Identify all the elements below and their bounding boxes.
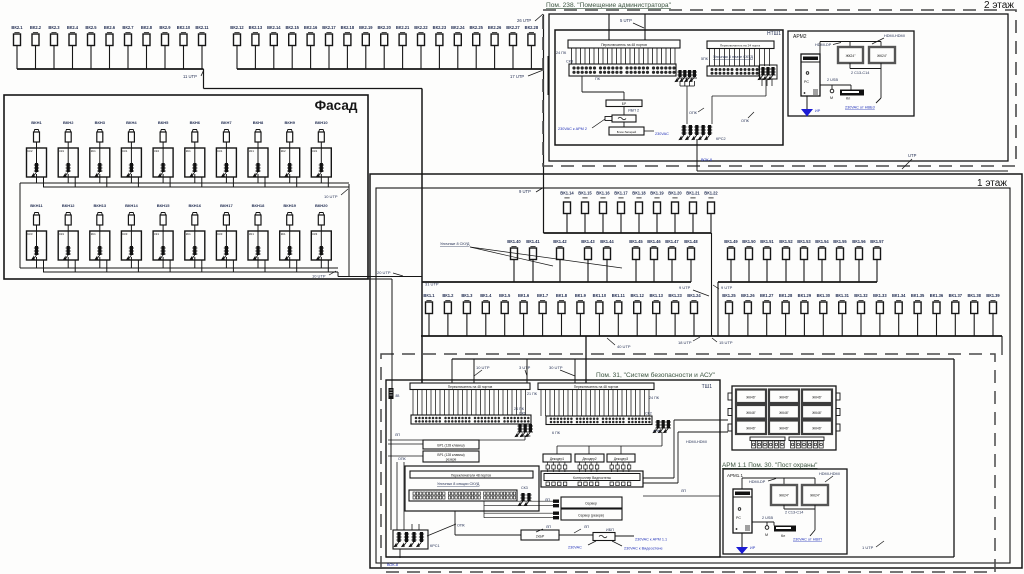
svg-text:2хБР: 2хБР <box>536 535 545 539</box>
svg-text:КК2: КК2 <box>154 149 159 153</box>
facade camera ВКН16 <box>188 203 201 231</box>
facade camera ВКН14 <box>125 203 138 231</box>
svg-text:ВК2.22: ВК2.22 <box>414 25 428 30</box>
svg-text:9 UTP: 9 UTP <box>721 285 733 290</box>
svg-text:ВК2.26: ВК2.26 <box>488 25 502 30</box>
svg-text:Переключатель на 24 порта: Переключатель на 24 порта <box>720 44 760 48</box>
svg-text:ВКН18: ВКН18 <box>252 203 265 208</box>
camera ВК1.36 <box>930 293 944 336</box>
camera ВК1.23 <box>668 293 682 336</box>
panel2 ports TSh1 <box>541 390 649 417</box>
junction box КК2 <box>153 148 173 177</box>
facade camera ВКН11 <box>30 203 43 231</box>
svg-text:ОПК: ОПК <box>457 524 466 528</box>
wire facade bus left riser <box>19 183 21 268</box>
svg-text:ВК2.8: ВК2.8 <box>141 25 153 30</box>
wire facade 20 UTP feeder <box>338 276 422 278</box>
svg-text:ВК1.16: ВК1.16 <box>596 191 610 196</box>
camera ВК1.25 <box>722 293 736 336</box>
camera ВК2.8 <box>141 25 153 69</box>
svg-text:230VAC к Видеостене: 230VAC к Видеостене <box>624 547 663 551</box>
svg-text:ВК2.7: ВК2.7 <box>122 25 134 30</box>
svg-text:ВКН13: ВКН13 <box>93 203 106 208</box>
wire monitors power ARM11 <box>784 505 815 536</box>
svg-text:Уличная 8 плате СКУД: Уличная 8 плате СКУД <box>713 55 753 59</box>
svg-text:ВК1.14: ВК1.14 <box>560 191 574 196</box>
camera ВК1.11 <box>612 293 626 336</box>
svg-text:ЛП: ЛП <box>546 525 551 529</box>
junction box КК1 <box>121 148 141 177</box>
camera ВК2.26 <box>488 25 502 69</box>
svg-text:ВК1.51: ВК1.51 <box>760 239 774 244</box>
facade camera ВКН3 <box>95 120 106 148</box>
camera ВК1.48 <box>684 239 698 282</box>
svg-text:КК1: КК1 <box>312 149 317 153</box>
svg-text:ВКН10: ВКН10 <box>315 120 328 125</box>
svg-text:ВК1.7: ВК1.7 <box>537 293 549 298</box>
facade camera ВКН4 <box>126 120 137 148</box>
svg-text:24 ПК: 24 ПК <box>514 407 525 411</box>
svg-text:1 этаж: 1 этаж <box>977 178 1007 189</box>
monitor ЖК24 no.1 ARM2 <box>838 47 863 63</box>
svg-text:ВК1.2: ВК1.2 <box>442 293 454 298</box>
svg-text:ВК2.3: ВК2.3 <box>48 25 60 30</box>
svg-text:ТШ1: ТШ1 <box>702 384 713 390</box>
camera ВК2.28 <box>525 25 539 69</box>
label 10 UTP row2 <box>312 271 336 279</box>
fiber cross KPC2 <box>679 125 725 141</box>
svg-text:КК2: КК2 <box>281 149 286 153</box>
svg-text:ВК2.6: ВК2.6 <box>104 25 116 30</box>
label ЛП left <box>388 433 423 444</box>
floor1 inner solid box <box>376 188 1010 563</box>
svg-text:ЖК24": ЖК24" <box>846 54 857 58</box>
svg-text:ВК1.21: ВК1.21 <box>686 191 700 196</box>
wire 5 UTP risers into panel <box>609 14 645 40</box>
decoder output connectors <box>546 462 631 472</box>
patch panel Переключатель на 24 порта <box>707 41 774 49</box>
facade row2 wires <box>37 257 329 272</box>
camera ВК1.2 <box>442 293 454 336</box>
svg-text:Переключатели 48 портов: Переключатели 48 портов <box>451 474 491 478</box>
svg-text:ИБП: ИБП <box>606 528 614 532</box>
svg-text:Переключатель на 48 портов: Переключатель на 48 портов <box>601 43 647 47</box>
junction box КК3 <box>216 231 236 260</box>
wire video bus ARM11 <box>742 478 815 489</box>
svg-text:КК3: КК3 <box>28 232 33 236</box>
wire ВОК-8 bottom <box>387 549 400 567</box>
camera ВК1.10 <box>593 293 607 336</box>
camera ВК1.26 <box>741 293 755 336</box>
facade camera ВКН7 <box>221 120 232 148</box>
svg-text:АРМ2: АРМ2 <box>793 34 807 40</box>
junction box КК2 <box>280 148 300 177</box>
label 3 UTP <box>519 365 531 376</box>
svg-text:1 UTP: 1 UTP <box>862 545 874 550</box>
svg-text:ВК2.5: ВК2.5 <box>85 25 97 30</box>
svg-text:2 этаж: 2 этаж <box>984 0 1014 11</box>
svg-text:5ПК: 5ПК <box>701 57 709 61</box>
svg-text:ОПК: ОПК <box>741 119 750 123</box>
camera ВК2.15 <box>285 25 299 69</box>
svg-text:АРМ 1.1 Пом. 30. "Пост охраны: АРМ 1.1 Пом. 30. "Пост охраны" <box>722 462 817 469</box>
svg-text:ВК1.20: ВК1.20 <box>668 191 682 196</box>
camera ВК1.49 <box>724 239 738 282</box>
svg-text:ВК1.13: ВК1.13 <box>649 293 663 298</box>
label ОПК 2 <box>741 112 754 123</box>
camera ВК2.13 <box>249 25 263 69</box>
svg-text:ВК1.57: ВК1.57 <box>870 239 884 244</box>
svg-text:ВК2.14: ВК2.14 <box>267 25 281 30</box>
svg-text:ЖК24": ЖК24" <box>810 494 821 498</box>
facade camera ВКН18 <box>252 203 265 231</box>
patch panel TSh1 no.2 <box>538 383 654 390</box>
camera ВК2.11 <box>195 25 209 69</box>
connector strip panel2 <box>707 66 759 76</box>
label 40 UTP <box>607 338 631 349</box>
svg-text:ВК1.53: ВК1.53 <box>797 239 811 244</box>
camera ВК1.40 <box>507 239 521 282</box>
facade camera ВКН19 <box>283 203 296 231</box>
svg-text:ВК1.56: ВК1.56 <box>852 239 866 244</box>
label 20 UTP <box>377 270 403 276</box>
junction box КК1 <box>185 148 205 177</box>
facade camera ВКН5 <box>158 120 169 148</box>
svg-text:2 С13-С14: 2 С13-С14 <box>851 71 869 75</box>
svg-text:ВК1.11: ВК1.11 <box>612 293 626 298</box>
camera ВК2.14 <box>267 25 281 69</box>
svg-text:10 UTP: 10 UTP <box>312 274 326 279</box>
svg-text:ВК1.42: ВК1.42 <box>553 239 567 244</box>
wire bus row R2 left <box>422 281 691 283</box>
svg-text:PC: PC <box>804 80 809 84</box>
camera ВК1.18 <box>632 191 646 234</box>
svg-text:230VAC от НВ/П: 230VAC от НВ/П <box>793 538 822 542</box>
svg-text:ВК1.38: ВК1.38 <box>967 293 981 298</box>
svg-text:Уличные 8 СКУД: Уличные 8 СКУД <box>440 242 470 246</box>
camera ВК1.47 <box>665 239 679 282</box>
label HDMI-HDMI ARM11 <box>819 472 840 482</box>
facade camera ВКН10 <box>315 120 328 148</box>
svg-text:ЖК46": ЖК46" <box>812 427 821 431</box>
svg-text:КК1: КК1 <box>59 232 64 236</box>
camera ВК1.1 <box>423 293 435 336</box>
svg-text:11 UTP: 11 UTP <box>183 74 197 79</box>
keyboard ARM2 <box>840 90 864 101</box>
floor2 inner solid box <box>549 14 1008 161</box>
camera ВК2.18 <box>341 25 355 69</box>
camera ВК2.23 <box>433 25 447 69</box>
wire USB bus ARM2 <box>820 85 851 90</box>
camera ВК1.45 <box>629 239 643 282</box>
camera ВК1.46 <box>647 239 661 282</box>
connector strip СК3 <box>569 64 676 76</box>
svg-text:КК2: КК2 <box>28 149 33 153</box>
svg-text:ВК1.48: ВК1.48 <box>684 239 698 244</box>
svg-text:ВК1.36: ВК1.36 <box>930 293 944 298</box>
svg-text:ВК2.28: ВК2.28 <box>525 25 539 30</box>
camera ВК1.21 <box>686 191 700 234</box>
svg-text:ВКН8: ВКН8 <box>253 120 264 125</box>
svg-text:ВОК-8: ВОК-8 <box>701 158 712 162</box>
connector strip СК3 floor1 <box>409 490 517 501</box>
svg-text:17 UTP: 17 UTP <box>510 74 524 79</box>
svg-text:ВК1.28: ВК1.28 <box>779 293 793 298</box>
svg-text:КК1: КК1 <box>186 149 191 153</box>
label 5 UTP <box>620 18 644 28</box>
label ОПК left <box>388 456 423 461</box>
svg-text:АРМ1.1: АРМ1.1 <box>727 473 743 478</box>
svg-text:ВК1.41: ВК1.41 <box>526 239 540 244</box>
svg-text:ВК1.33: ВК1.33 <box>873 293 887 298</box>
svg-text:ВК2.17: ВК2.17 <box>322 25 336 30</box>
wire video bus ARM2 <box>820 42 881 55</box>
camera ВК1.14 <box>560 191 574 234</box>
camera ВК2.22 <box>414 25 428 69</box>
camera ВК1.27 <box>760 293 774 336</box>
svg-text:ВК1.3: ВК1.3 <box>461 293 473 298</box>
label 230VAC floor1 <box>568 541 596 550</box>
video wall box <box>732 386 836 450</box>
ground triangle ARM2 <box>801 96 813 117</box>
svg-text:КК1: КК1 <box>281 232 286 236</box>
svg-text:230VAC: 230VAC <box>568 546 582 550</box>
camera ВК1.3 <box>461 293 473 336</box>
svg-text:ВК1.9: ВК1.9 <box>575 293 587 298</box>
monitor ЖК24 no.2 ARM2 <box>869 47 895 63</box>
junction box КК1 <box>248 148 268 177</box>
svg-text:ВК1.23: ВК1.23 <box>668 293 682 298</box>
camera ВК1.9 <box>575 293 587 336</box>
svg-text:26 UTP: 26 UTP <box>517 18 531 23</box>
svg-text:ВК2.9: ВК2.9 <box>159 25 171 30</box>
power block 2хБР <box>521 530 559 540</box>
camera ВК2.16 <box>304 25 318 69</box>
wire monitors power ARM2 <box>850 63 881 103</box>
facade camera ВКН12 <box>62 203 75 231</box>
decoder Декодер2 <box>575 454 604 462</box>
junction box КК1 <box>248 231 268 260</box>
svg-text:КРС2: КРС2 <box>716 137 726 141</box>
room Фасад box <box>4 95 368 279</box>
svg-text:ВКН6: ВКН6 <box>190 120 201 125</box>
svg-text:ОПК: ОПК <box>689 111 698 115</box>
svg-text:9 UTP: 9 UTP <box>679 285 691 290</box>
svg-text:ВКН11: ВКН11 <box>30 203 43 208</box>
PC tower ARM2 <box>801 54 820 96</box>
junction box КК2 <box>27 148 47 177</box>
camera ВК1.57 <box>870 239 884 282</box>
decoder Декодер1 <box>543 454 571 462</box>
video wall connector groups <box>750 437 824 448</box>
label 30 UTP <box>549 365 575 376</box>
label ЛП bottom1 <box>536 525 551 532</box>
svg-text:ПК: ПК <box>595 77 601 81</box>
facade camera ВКН20 <box>315 203 328 231</box>
svg-text:ВК2.20: ВК2.20 <box>377 25 391 30</box>
label 9 UTP row drop left <box>679 285 709 296</box>
svg-text:КК3: КК3 <box>217 232 222 236</box>
wire facade bus row2 b <box>43 271 338 273</box>
connector cluster СК3 <box>518 493 531 506</box>
connector trio right of strip2 <box>758 65 777 86</box>
svg-text:10 UTP: 10 UTP <box>324 194 338 199</box>
camera ВК1.20 <box>668 191 682 234</box>
camera ВК1.34 <box>892 293 906 336</box>
svg-text:ВК2.11: ВК2.11 <box>195 25 209 30</box>
svg-text:20 UTP: 20 UTP <box>377 270 391 275</box>
svg-text:Декодер3: Декодер3 <box>614 457 628 461</box>
svg-text:КК1: КК1 <box>249 232 254 236</box>
svg-text:ВР1 (128 клавиш): ВР1 (128 клавиш) <box>437 453 464 457</box>
svg-text:ВК1.6: ВК1.6 <box>518 293 530 298</box>
svg-text:HDMI-HDMI: HDMI-HDMI <box>884 34 905 38</box>
svg-text:ЖК46": ЖК46" <box>746 427 755 431</box>
svg-text:24 ПК: 24 ПК <box>649 396 660 400</box>
svg-text:КК1: КК1 <box>59 149 64 153</box>
svg-text:СК3: СК3 <box>566 60 573 64</box>
battery block Блок батарей <box>609 127 644 135</box>
label 230VAC к Видеостене <box>612 541 663 551</box>
svg-text:ВКН17: ВКН17 <box>220 203 233 208</box>
svg-text:ВКН14: ВКН14 <box>125 203 138 208</box>
junction box КК1 <box>153 231 173 260</box>
wire bus 17 UTP floor2 group2 <box>237 15 544 70</box>
workstation АРМ2 box <box>788 31 914 116</box>
svg-text:Блок батарей: Блок батарей <box>617 130 637 134</box>
label 18 UTP <box>678 337 700 345</box>
connector strip СК1 <box>411 415 531 424</box>
svg-text:ВК2.13: ВК2.13 <box>249 25 263 30</box>
wire fiber to KRS1 <box>390 399 392 530</box>
svg-text:ВКН16: ВКН16 <box>188 203 201 208</box>
camera ВК2.7 <box>122 25 134 69</box>
svg-text:ЖК24": ЖК24" <box>877 54 888 58</box>
monitor ЖК24 no.1 ARM11 <box>771 485 797 505</box>
svg-text:40 UTP: 40 UTP <box>617 344 631 349</box>
svg-text:НТШ1: НТШ1 <box>767 31 781 37</box>
wire facade bus row2 drop <box>337 272 339 277</box>
camera ВК2.20 <box>377 25 391 69</box>
PC tower ARM11 <box>733 489 752 533</box>
svg-text:ВК1.55: ВК1.55 <box>833 239 847 244</box>
svg-text:9 UTP: 9 UTP <box>519 189 531 194</box>
svg-text:СК2: СК2 <box>645 412 652 416</box>
svg-text:ВК2.21: ВК2.21 <box>396 25 410 30</box>
decoder Декодер3 <box>607 454 635 462</box>
svg-text:2 USB: 2 USB <box>762 516 773 520</box>
svg-text:ВКН20: ВКН20 <box>315 203 328 208</box>
wire riser x422 to TSh1 <box>421 89 423 384</box>
svg-text:ВК1.45: ВК1.45 <box>629 239 643 244</box>
svg-text:ЛП: ЛП <box>681 489 686 493</box>
label HDMI-DP ARM11 <box>749 479 776 485</box>
svg-text:ВКН5: ВКН5 <box>158 120 169 125</box>
label 230VAC к АРМ 2 <box>558 119 605 131</box>
svg-text:ВК2.27: ВК2.27 <box>506 25 520 30</box>
svg-text:ВК1.24: ВК1.24 <box>687 293 701 298</box>
junction box КК3 <box>121 231 141 260</box>
wire facade right drop <box>348 184 350 277</box>
svg-text:ЖК46": ЖК46" <box>746 396 755 400</box>
svg-text:8В: 8В <box>396 394 400 398</box>
svg-text:Пом. 238. "Помещение администр: Пом. 238. "Помещение администратора" <box>546 2 672 9</box>
label 1 UTP <box>862 541 884 550</box>
camera ВК2.27 <box>506 25 520 69</box>
wire bus row R2 right <box>718 282 877 336</box>
video wall monitors ЖК46 <box>736 390 832 435</box>
facade camera ВКН15 <box>157 203 170 231</box>
ground triangle ARM11 <box>736 533 748 554</box>
svg-text:КК1: КК1 <box>249 149 254 153</box>
svg-text:М: М <box>765 533 768 537</box>
junction box КК1 <box>58 148 78 177</box>
patch panel TSh1 no.1 <box>410 383 530 390</box>
camera ВК1.4 <box>480 293 492 336</box>
svg-text:Уличных 8 секции СКУД: Уличных 8 секции СКУД <box>437 482 480 486</box>
svg-text:ИБП 2: ИБП 2 <box>628 109 639 113</box>
facade camera ВКН6 <box>190 120 201 148</box>
svg-text:ВК1.22: ВК1.22 <box>704 191 718 196</box>
camera ВК1.50 <box>742 239 756 282</box>
wire risers into TSh1 panels <box>474 336 586 383</box>
camera ВК1.51 <box>760 239 774 282</box>
panel2 port wires <box>710 49 770 67</box>
camera ВК1.8 <box>556 293 568 336</box>
svg-text:ВК1.25: ВК1.25 <box>722 293 736 298</box>
svg-text:КРС1: КРС1 <box>430 544 440 548</box>
camera ВК2.10 <box>177 25 191 69</box>
camera ВК2.3 <box>48 25 60 69</box>
svg-text:ВК2.4: ВК2.4 <box>67 25 79 30</box>
label HDMI-HDMI <box>872 34 905 44</box>
svg-text:ВКН2: ВКН2 <box>63 120 74 125</box>
svg-text:6 ПК: 6 ПК <box>552 431 561 435</box>
keyboard ARM11 <box>774 526 796 539</box>
wire controller to video wall <box>643 420 728 483</box>
svg-text:ВК1.26: ВК1.26 <box>741 293 755 298</box>
camera ВК1.24 <box>687 293 701 336</box>
label 15 UTP <box>712 338 733 345</box>
svg-text:230VAC: 230VAC <box>655 132 669 136</box>
svg-text:КК3: КК3 <box>312 232 317 236</box>
camera ВК2.24 <box>451 25 465 69</box>
svg-text:ВК1.47: ВК1.47 <box>665 239 679 244</box>
server Сервер резерв <box>561 509 622 520</box>
video wall controller <box>541 471 643 487</box>
svg-text:30 UTP: 30 UTP <box>549 365 563 370</box>
facade camera ВКН9 <box>284 120 295 148</box>
svg-text:ВК1.27: ВК1.27 <box>760 293 774 298</box>
svg-text:10 UTP: 10 UTP <box>476 365 490 370</box>
svg-text:ВК1.12: ВК1.12 <box>630 293 644 298</box>
svg-text:ВК1.52: ВК1.52 <box>779 239 793 244</box>
camera ВК1.31 <box>835 293 849 336</box>
camera ВК1.43 <box>581 239 595 282</box>
wire 9 UTP riser to NTSh1 <box>543 69 545 233</box>
monitor ЖК24 no.2 ARM11 <box>802 485 828 505</box>
svg-text:3 UTP: 3 UTP <box>519 365 531 370</box>
camera ВК1.44 <box>600 239 614 282</box>
label HDMI-DP <box>815 43 841 48</box>
floor1 equipment solid box <box>386 359 954 557</box>
camera ВК1.28 <box>779 293 793 336</box>
svg-text:СК3: СК3 <box>521 486 528 490</box>
svg-text:ВК1.29: ВК1.29 <box>798 293 812 298</box>
svg-text:Фасад: Фасад <box>315 98 358 113</box>
cabinet НТШ1 <box>555 30 783 145</box>
svg-text:ЖК24": ЖК24" <box>779 494 790 498</box>
